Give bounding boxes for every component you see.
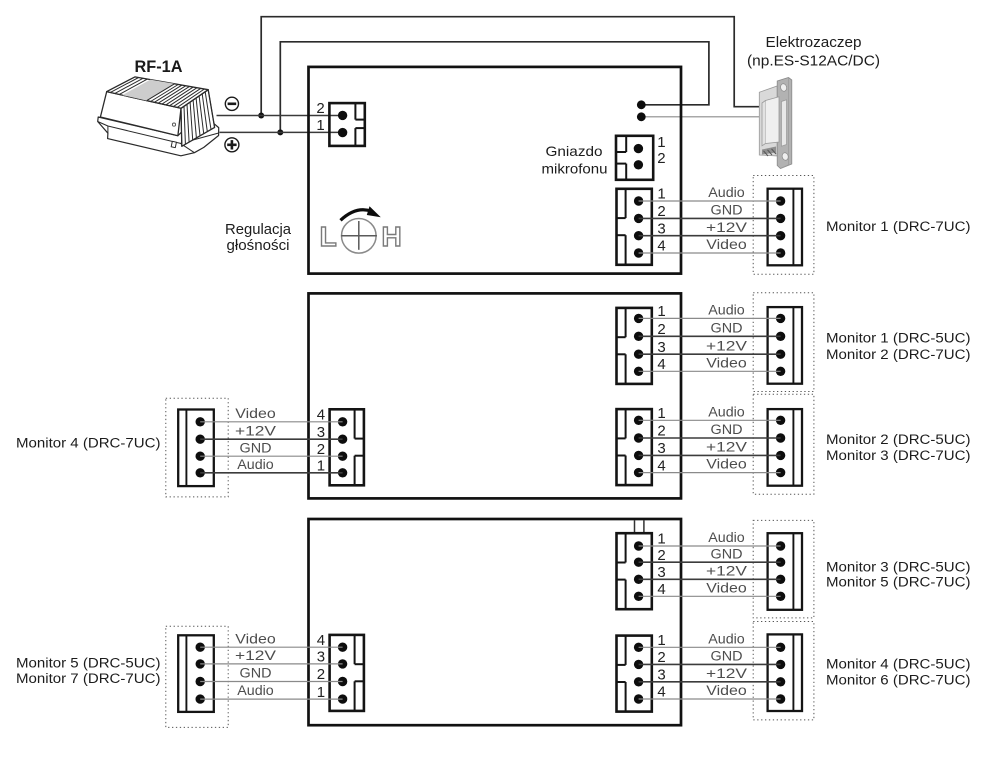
wire transformer minus lead xyxy=(217,115,343,117)
monitor connector monitor 4 plug body xyxy=(178,410,214,487)
svg-text:GND: GND xyxy=(711,546,743,561)
svg-text:3: 3 xyxy=(657,440,665,457)
monitor connector monitors 4/6 (dotted outline) xyxy=(753,622,814,720)
svg-text:4: 4 xyxy=(317,407,325,424)
svg-text:Monitor 7 (DRC-7UC): Monitor 7 (DRC-7UC) xyxy=(16,671,161,687)
svg-text:Video: Video xyxy=(706,580,747,595)
wire GND box2 set1 xyxy=(639,335,781,337)
wire +12V box2 set2 xyxy=(639,454,781,456)
svg-text:2: 2 xyxy=(317,441,325,458)
panel unit box 3 (distributor) xyxy=(309,519,682,725)
wire Audio box2 set1 xyxy=(639,317,781,319)
svg-text:3: 3 xyxy=(317,649,325,666)
svg-text:3: 3 xyxy=(317,424,325,441)
wire GND box2 left xyxy=(200,455,342,457)
node strike terminal lower xyxy=(637,112,646,121)
terminal block CN3 box3 xyxy=(330,635,364,711)
door strike drawing xyxy=(759,78,792,169)
svg-text:GND: GND xyxy=(711,649,743,664)
wire Video box3 set2 xyxy=(639,698,781,700)
monitor connector monitor 4 (dotted outline) xyxy=(166,398,228,497)
monitor connector monitors 3/5 plug body xyxy=(768,533,802,610)
polarity symbol plus xyxy=(225,138,239,152)
terminal block CN1 box2 xyxy=(617,308,652,384)
svg-text:GND: GND xyxy=(240,440,272,455)
wire Video box2 set1 xyxy=(639,370,781,372)
svg-text:4: 4 xyxy=(657,581,665,598)
svg-text:2: 2 xyxy=(317,666,325,683)
svg-text:Video: Video xyxy=(706,355,747,370)
wire Audio box2 set2 xyxy=(639,419,781,421)
svg-text:2: 2 xyxy=(657,150,665,167)
panel unit box 1 (door station) xyxy=(309,67,682,274)
svg-text:1: 1 xyxy=(317,458,325,475)
svg-text:Regulacja: Regulacja xyxy=(225,221,292,238)
volume potentiometer xyxy=(341,219,377,254)
svg-text:(np.ES-S12AC/DC): (np.ES-S12AC/DC) xyxy=(747,53,880,70)
svg-text:Video: Video xyxy=(235,406,276,421)
svg-text:4: 4 xyxy=(657,457,665,474)
wire Audio box1 xyxy=(639,200,781,202)
monitor connector monitor 1 (dotted outline) xyxy=(753,176,814,275)
terminal block CN2 box2 xyxy=(617,409,652,485)
wire Audio box3 set2 xyxy=(639,646,781,648)
svg-text:Audio: Audio xyxy=(708,404,745,419)
svg-text:Monitor 3 (DRC-7UC): Monitor 3 (DRC-7UC) xyxy=(826,448,971,464)
terminal block CN1 box1 xyxy=(617,189,652,265)
svg-text:Monitor 1 (DRC-7UC): Monitor 1 (DRC-7UC) xyxy=(826,219,971,235)
junction plus wire xyxy=(277,129,283,135)
wire GND box3 left xyxy=(200,681,342,683)
wire +12V box3 set2 xyxy=(639,681,781,683)
terminal block CN3 box2 xyxy=(330,409,364,485)
svg-text:Monitor 3 (DRC-5UC): Monitor 3 (DRC-5UC) xyxy=(826,559,971,575)
svg-text:2: 2 xyxy=(657,321,665,338)
svg-text:GND: GND xyxy=(711,320,743,335)
svg-text:1: 1 xyxy=(657,632,665,649)
svg-text:2: 2 xyxy=(657,423,665,440)
wire C: panel node to door strike xyxy=(641,116,760,118)
svg-text:GND: GND xyxy=(240,666,272,681)
wire A: transformer minus to door strike (outer loop) xyxy=(261,17,759,116)
power terminal block box1 xyxy=(329,103,364,146)
svg-text:3: 3 xyxy=(657,564,665,581)
wire +12V box2 set1 xyxy=(639,353,781,355)
junction minus wire xyxy=(258,113,264,119)
svg-text:głośności: głośności xyxy=(227,237,290,254)
svg-text:Audio: Audio xyxy=(708,303,745,318)
svg-text:3: 3 xyxy=(657,339,665,356)
svg-text:Audio: Audio xyxy=(708,185,745,200)
svg-text:+12V: +12V xyxy=(706,440,747,455)
wire GND box1 xyxy=(639,217,781,219)
svg-text:Monitor 5 (DRC-7UC): Monitor 5 (DRC-7UC) xyxy=(826,575,971,591)
svg-text:GND: GND xyxy=(711,203,743,218)
svg-text:Video: Video xyxy=(706,457,747,472)
wire Audio box3 left xyxy=(200,698,342,700)
svg-text:Video: Video xyxy=(235,631,276,646)
svg-text:4: 4 xyxy=(657,356,665,373)
transformer RF-1A drawing xyxy=(98,77,219,156)
wire transformer plus lead xyxy=(220,131,343,133)
terminal block CN2 box3 xyxy=(617,636,652,712)
svg-text:+12V: +12V xyxy=(235,648,276,663)
svg-text:Monitor 2 (DRC-7UC): Monitor 2 (DRC-7UC) xyxy=(826,347,971,363)
svg-text:Monitor 2 (DRC-5UC): Monitor 2 (DRC-5UC) xyxy=(826,432,971,448)
monitor connector monitors 1/2 (dotted outline) xyxy=(753,293,814,392)
svg-text:GND: GND xyxy=(711,422,743,437)
svg-text:3: 3 xyxy=(657,667,665,684)
svg-text:+12V: +12V xyxy=(706,666,747,681)
polarity symbol minus xyxy=(225,97,238,110)
svg-text:Monitor 1 (DRC-5UC): Monitor 1 (DRC-5UC) xyxy=(826,330,971,346)
svg-text:+12V: +12V xyxy=(706,338,747,353)
svg-text:mikrofonu: mikrofonu xyxy=(542,160,608,176)
svg-text:Audio: Audio xyxy=(708,530,745,545)
svg-text:1: 1 xyxy=(316,117,324,134)
svg-text:+12V: +12V xyxy=(706,563,747,578)
svg-text:Elektrozaczep: Elektrozaczep xyxy=(766,34,862,51)
svg-text:4: 4 xyxy=(317,632,325,649)
monitor connector monitors 4/6 plug body xyxy=(768,634,802,711)
svg-text:2: 2 xyxy=(316,100,324,117)
wire GND box3 set1 xyxy=(639,561,781,563)
monitor connector monitors 1/2 plug body xyxy=(768,307,802,384)
node strike terminal upper xyxy=(637,100,646,109)
svg-text:RF-1A: RF-1A xyxy=(135,58,183,76)
svg-text:1: 1 xyxy=(317,684,325,701)
terminal block CN1 box3 xyxy=(617,533,652,609)
monitor connector monitors 2/3 (dotted outline) xyxy=(753,394,814,494)
svg-text:4: 4 xyxy=(657,684,665,701)
wire GND box3 set2 xyxy=(639,663,781,665)
monitor connector monitors 3/5 (dotted outline) xyxy=(753,520,814,618)
svg-text:2: 2 xyxy=(657,547,665,564)
wire Video box3 set1 xyxy=(639,595,781,597)
wire +12V box2 left xyxy=(200,438,342,440)
microphone terminal block xyxy=(616,136,653,180)
svg-text:Monitor 5 (DRC-5UC): Monitor 5 (DRC-5UC) xyxy=(16,656,161,672)
svg-text:3: 3 xyxy=(657,220,665,237)
rotation arrow xyxy=(341,210,373,221)
wire Audio box2 left xyxy=(200,472,342,474)
monitor connector monitor 1 plug body xyxy=(768,189,802,266)
wire Video box2 set2 xyxy=(639,472,781,474)
wire +12V box1 xyxy=(639,235,781,237)
svg-text:Video: Video xyxy=(706,683,747,698)
wire +12V box3 set1 xyxy=(639,578,781,580)
svg-text:1: 1 xyxy=(657,134,665,151)
wire Video box3 left xyxy=(200,646,342,648)
svg-text:2: 2 xyxy=(657,649,665,666)
svg-text:Audio: Audio xyxy=(237,683,274,698)
svg-text:Audio: Audio xyxy=(237,457,274,472)
svg-text:L: L xyxy=(320,221,337,252)
svg-text:Monitor 4 (DRC-7UC): Monitor 4 (DRC-7UC) xyxy=(16,436,161,452)
connector tab box3 xyxy=(634,520,636,533)
svg-text:1: 1 xyxy=(657,303,665,320)
wire GND box2 set2 xyxy=(639,437,781,439)
svg-text:Monitor 4 (DRC-5UC): Monitor 4 (DRC-5UC) xyxy=(826,656,971,672)
wire +12V box3 left xyxy=(200,663,342,665)
svg-text:+12V: +12V xyxy=(235,423,276,438)
svg-text:Monitor 6 (DRC-7UC): Monitor 6 (DRC-7UC) xyxy=(826,672,971,688)
wire Video box1 xyxy=(639,252,781,254)
svg-text:1: 1 xyxy=(657,186,665,203)
svg-text:2: 2 xyxy=(657,203,665,220)
svg-text:1: 1 xyxy=(657,405,665,422)
svg-text:Video: Video xyxy=(706,237,747,252)
svg-text:1: 1 xyxy=(657,531,665,548)
monitor connector monitors 2/3 plug body xyxy=(768,409,802,486)
wire B: transformer plus to panel node (inner loop) xyxy=(280,42,709,133)
monitor connector monitors 5/7 (dotted outline) xyxy=(166,626,228,727)
svg-text:Audio: Audio xyxy=(708,631,745,646)
svg-text:4: 4 xyxy=(657,238,665,255)
wire Audio box3 set1 xyxy=(639,545,781,547)
wire Video box2 left xyxy=(200,421,342,423)
svg-text:H: H xyxy=(381,221,401,252)
panel unit box 2 (distributor) xyxy=(309,293,682,498)
svg-text:+12V: +12V xyxy=(706,220,747,235)
monitor connector monitors 5/7 plug body xyxy=(178,635,214,712)
svg-text:Gniazdo: Gniazdo xyxy=(546,143,603,159)
